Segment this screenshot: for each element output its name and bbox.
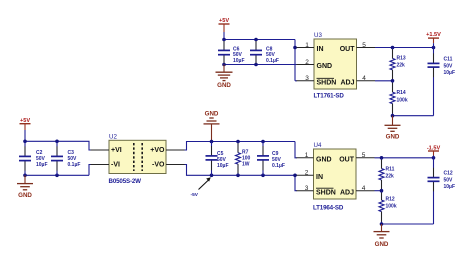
- junction R7 top: [236, 140, 240, 144]
- svg-text:GND: GND: [316, 156, 332, 163]
- U4 pin 1 (GND): [297, 152, 332, 163]
- junction R12 bottom / GND: [380, 222, 384, 226]
- U2 pin +VI: [91, 147, 122, 154]
- svg-text:1: 1: [305, 152, 309, 159]
- power port +1.5V: [426, 32, 441, 47]
- svg-text:100k: 100k: [397, 98, 408, 104]
- U3 pin 2 (GND): [297, 59, 333, 70]
- svg-text:+5V: +5V: [219, 18, 229, 24]
- capacitor C2: [19, 141, 48, 175]
- wire -VO to -5V rail: [185, 165, 298, 176]
- svg-text:3: 3: [305, 75, 309, 82]
- svg-text:ADJ: ADJ: [340, 79, 354, 86]
- svg-text:5: 5: [362, 152, 366, 159]
- junction C9 bottom: [261, 174, 265, 178]
- wire SHDN branch (bottom): [295, 175, 297, 190]
- junction -1.5V / C12: [432, 156, 436, 160]
- wire U3 ADJ net: [375, 80, 393, 82]
- capacitor C6: [218, 40, 245, 65]
- junction +1.5V / C11: [432, 46, 436, 50]
- wire jog to -VI: [89, 165, 91, 176]
- power port +5V (top): [219, 18, 230, 32]
- svg-text:+1.5V: +1.5V: [426, 32, 441, 38]
- svg-text:+VO: +VO: [150, 147, 165, 154]
- svg-text:U4: U4: [314, 142, 322, 149]
- junction IN branch: [293, 46, 297, 50]
- svg-text:4: 4: [362, 185, 366, 192]
- svg-text:100k: 100k: [386, 204, 397, 210]
- junction GND stem / C5 top: [210, 140, 214, 144]
- junction R11 top: [380, 156, 384, 160]
- junction C9 top: [261, 140, 265, 144]
- svg-text:IN: IN: [317, 46, 324, 53]
- wire GND rail down to U4 pin1: [295, 142, 297, 158]
- svg-text:0.1µF: 0.1µF: [68, 162, 81, 168]
- U2 pin -VO: [152, 161, 185, 168]
- wire C12 bottom to R12 bottom: [382, 223, 434, 225]
- U2 pin +VO: [150, 147, 185, 154]
- wire +5V stem to rail: [223, 32, 225, 40]
- junction C3 top: [55, 140, 59, 144]
- junction C2 top: [23, 140, 27, 144]
- svg-text:LT1964-SD: LT1964-SD: [313, 204, 344, 211]
- ground GND (bottom-right): [374, 224, 390, 248]
- svg-text:ADJ: ADJ: [340, 189, 354, 196]
- svg-text:10µF: 10µF: [233, 58, 245, 64]
- wire U4 OUT net: [375, 157, 434, 159]
- svg-text:GND: GND: [317, 63, 333, 70]
- svg-text:GND: GND: [18, 192, 32, 199]
- svg-text:R13: R13: [397, 56, 406, 62]
- capacitor C8: [250, 40, 279, 65]
- wire SHDN branch: [295, 80, 297, 82]
- svg-text:2: 2: [305, 170, 309, 177]
- svg-text:IN: IN: [316, 174, 323, 181]
- svg-text:C11: C11: [444, 57, 453, 63]
- svg-text:10µF: 10µF: [217, 163, 229, 169]
- wire IN branch: [295, 47, 297, 49]
- svg-text:0.1µF: 0.1µF: [272, 163, 285, 169]
- svg-text:22k: 22k: [386, 173, 395, 179]
- U4 pin 2 (IN): [297, 170, 324, 181]
- power port +5V (bottom): [20, 118, 31, 130]
- ground GND (top-right): [385, 116, 401, 141]
- resistor R12 100k: [379, 191, 397, 224]
- svg-text:OUT: OUT: [339, 156, 355, 163]
- junction R13 top: [391, 46, 395, 50]
- svg-text:GND: GND: [386, 133, 400, 140]
- wire 0V rail to U2 -VI: [25, 174, 89, 176]
- capacitor C3: [51, 141, 80, 175]
- svg-text:50V: 50V: [444, 177, 454, 183]
- svg-text:R11: R11: [386, 166, 395, 172]
- U4 pin 4 (ADJ): [340, 185, 375, 196]
- svg-text:C12: C12: [444, 171, 453, 177]
- svg-text:0.1µF: 0.1µF: [266, 58, 279, 64]
- svg-text:+VI: +VI: [111, 147, 122, 154]
- junction C8 bottom: [254, 63, 258, 67]
- resistor R11 22k: [379, 158, 395, 191]
- wire vertical to SHDN: [294, 40, 296, 81]
- U4 pin 3 (SHDN, active low): [297, 185, 336, 196]
- svg-text:10µF: 10µF: [444, 70, 456, 76]
- junction SHDN branch: [293, 174, 297, 178]
- wire C11 bottom to R14 bottom: [393, 115, 434, 117]
- U2 pin -VI: [91, 161, 121, 168]
- svg-text:OUT: OUT: [340, 46, 356, 53]
- resistor R14 100k: [390, 81, 408, 116]
- svg-text:10µF: 10µF: [444, 184, 456, 190]
- svg-text:GND: GND: [217, 82, 231, 89]
- svg-text:-VI: -VI: [111, 161, 120, 168]
- svg-text:LT1761-SD: LT1761-SD: [314, 93, 345, 100]
- svg-text:SHDN: SHDN: [317, 79, 337, 86]
- regulator U3 LT1761-SD body: [314, 32, 357, 100]
- junction C8 top: [254, 38, 258, 42]
- junction C3 bottom: [55, 174, 59, 178]
- U3 pin 5 (OUT): [340, 42, 375, 53]
- DC/DC converter U2 B0505S-2W body: [109, 134, 167, 185]
- capacitor C9: [257, 142, 285, 176]
- svg-text:4: 4: [362, 75, 366, 82]
- svg-text:1W: 1W: [242, 162, 250, 168]
- svg-text:3: 3: [305, 185, 309, 192]
- wire +5V rail to U2 +VI: [25, 141, 91, 150]
- svg-text:B0505S-2W: B0505S-2W: [109, 178, 142, 185]
- power port -1.5V: [427, 146, 441, 158]
- svg-text:10µF: 10µF: [36, 162, 48, 168]
- svg-text:5: 5: [362, 42, 366, 49]
- wire GND rail (top): [224, 64, 297, 66]
- svg-text:22k: 22k: [397, 63, 406, 69]
- junction ADJ / R11 / R12: [380, 189, 384, 193]
- junction R14 bottom / GND: [391, 114, 395, 118]
- wire +5V stem (bottom): [24, 130, 26, 141]
- junction C5 bottom (-5V node): [210, 174, 214, 178]
- svg-text:-5V: -5V: [191, 192, 199, 198]
- wire +5V rail (top): [224, 39, 295, 41]
- capacitor C5: [206, 142, 229, 176]
- svg-text:U3: U3: [314, 32, 322, 39]
- ground GND (bottom-left): [17, 175, 33, 199]
- ground GND (middle, inverted above rail): [204, 111, 220, 142]
- svg-text:U2: U2: [109, 134, 117, 141]
- svg-text:50V: 50V: [444, 63, 454, 69]
- junction +5V/C6 top: [222, 38, 226, 42]
- wire U4 ADJ net: [375, 190, 382, 192]
- svg-text:GND: GND: [205, 111, 219, 118]
- U4 pin 5 (OUT): [339, 152, 374, 163]
- U3 pin 4 (ADJ): [340, 75, 375, 86]
- svg-text:-VO: -VO: [152, 161, 165, 168]
- U3 pin 3 (SHDN, active low): [297, 75, 337, 86]
- resistor R7 100 1W: [236, 142, 251, 176]
- regulator U4 LT1964-SD body: [313, 142, 356, 211]
- U3 pin 1 (IN): [297, 42, 324, 53]
- svg-text:GND: GND: [375, 241, 389, 248]
- junction R7 bottom: [236, 174, 240, 178]
- svg-text:R14: R14: [397, 90, 406, 96]
- junction C2 bottom / GND: [23, 174, 27, 178]
- ground GND (top-left): [216, 65, 233, 90]
- capacitor C11: [428, 48, 456, 116]
- capacitor C12: [428, 158, 456, 224]
- wire +VO to GND rail: [185, 142, 296, 151]
- svg-text:SHDN: SHDN: [316, 189, 336, 196]
- junction C6 bottom / GND: [222, 63, 226, 67]
- svg-text:R12: R12: [386, 197, 395, 203]
- junction ADJ / R13 / R14: [391, 79, 395, 83]
- svg-text:1: 1: [305, 42, 309, 49]
- svg-text:2: 2: [305, 59, 309, 66]
- annotation arrow to -5V node: [191, 177, 211, 198]
- wire U3 OUT net: [375, 47, 434, 49]
- resistor R13 22k: [390, 48, 406, 81]
